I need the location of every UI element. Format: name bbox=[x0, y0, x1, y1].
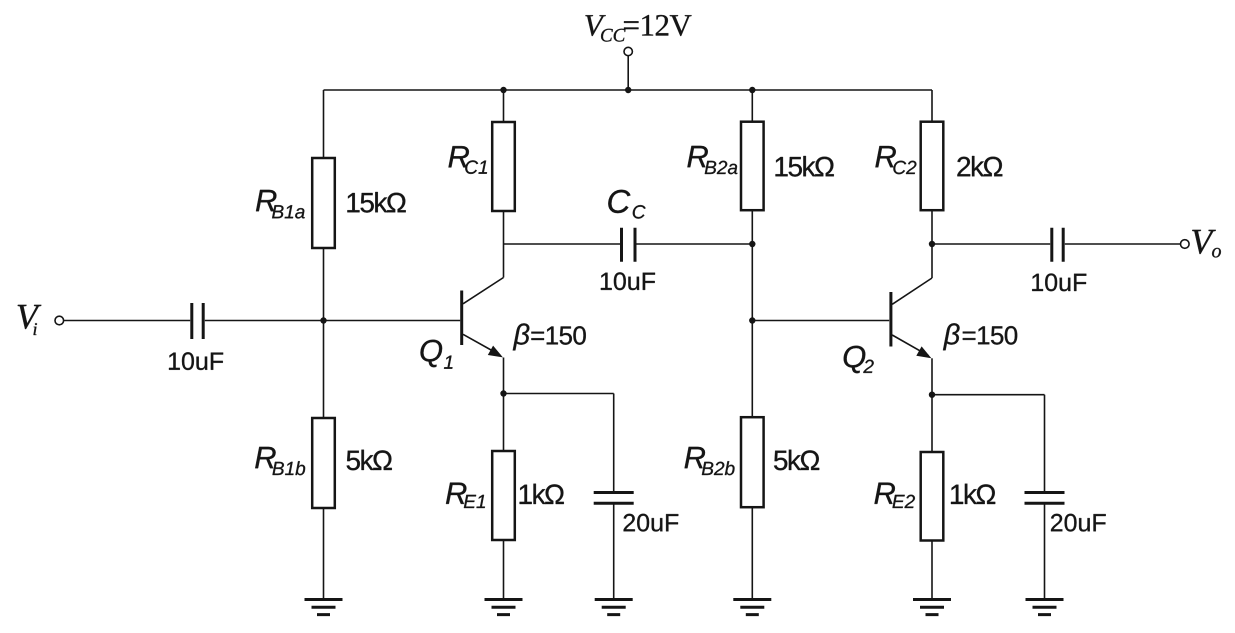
wire left column lower bbox=[323, 508, 325, 599]
label RE1 bbox=[446, 483, 485, 508]
junction dot node emitter 2 bbox=[929, 392, 935, 398]
capacitor Co plates bbox=[1052, 228, 1063, 262]
value 15k ohm 2 bbox=[776, 156, 834, 177]
resistor RB1a bbox=[312, 158, 335, 248]
terminal Vo bbox=[1181, 240, 1190, 249]
ground RB1b bbox=[305, 600, 343, 615]
value CE2 20uF bbox=[1051, 514, 1106, 532]
junction dot node base 2 bbox=[749, 317, 755, 323]
wire left column mid bbox=[323, 248, 325, 418]
wire RC2 bottom to collector 2 bbox=[931, 210, 933, 278]
label Q2 bbox=[844, 346, 874, 374]
value 5k ohm 1 bbox=[347, 450, 392, 471]
label RE2 bbox=[875, 483, 915, 508]
resistor RE2 bbox=[921, 452, 944, 541]
junction dot node emitter 1 bbox=[500, 390, 506, 396]
value 15k ohm 1 bbox=[347, 192, 405, 213]
label RC2 bbox=[875, 146, 916, 174]
wire bypass 2 horizontal bbox=[932, 394, 1045, 396]
transistor Q1 emitter arrowhead bbox=[488, 346, 503, 358]
capacitor CC plates bbox=[622, 228, 636, 262]
junction dot rail RC1 bbox=[500, 87, 506, 93]
wire VCC stem bbox=[627, 56, 629, 90]
wire mid column RB2a bottom through nodes bbox=[751, 210, 753, 417]
transistor Q2 emitter arrowhead bbox=[916, 346, 931, 358]
wire RE2 top bbox=[931, 395, 933, 452]
wire Q2 emitter vertical bbox=[931, 358, 933, 394]
resistor RB2b bbox=[741, 417, 764, 507]
transistor Q1 base bar bbox=[460, 291, 463, 346]
wire RC2 top bbox=[931, 90, 933, 122]
resistor RE1 bbox=[492, 451, 515, 540]
label RC1 bbox=[449, 146, 488, 174]
wire RC1 bottom to collector bbox=[503, 211, 505, 278]
value 1k ohm 2 bbox=[951, 484, 995, 504]
wire bypass 2 cap top bbox=[1044, 395, 1046, 491]
wire CC to RB2a column bbox=[637, 243, 753, 245]
resistor RB2a bbox=[741, 122, 764, 211]
capacitor Ci plates bbox=[192, 303, 203, 339]
wire input right bbox=[205, 320, 460, 322]
transistor Q1 emitter line bbox=[463, 334, 500, 355]
label CC bbox=[608, 190, 645, 219]
wire bypass 2 cap bottom bbox=[1044, 505, 1046, 600]
value 5k ohm 2 bbox=[774, 450, 819, 471]
ground RE1 bbox=[485, 600, 523, 615]
value 2k ohm bbox=[957, 156, 1002, 176]
label Vo bbox=[1192, 230, 1221, 258]
value CC 10uF bbox=[601, 272, 655, 290]
label Vi bbox=[18, 305, 42, 335]
wire top rail bbox=[324, 89, 933, 91]
ground RB2b bbox=[733, 600, 771, 615]
label RB2b bbox=[685, 447, 735, 475]
transistor Q2 collector line bbox=[892, 278, 932, 304]
transistor Q2 emitter line bbox=[892, 335, 928, 356]
terminal Vi bbox=[55, 316, 64, 325]
label beta 1 bbox=[513, 323, 586, 350]
wire RE1 top bbox=[503, 394, 505, 452]
value 1k ohm 1 bbox=[520, 484, 564, 504]
wire Q1 emitter vertical bbox=[503, 358, 505, 394]
ground CE2 bbox=[1026, 600, 1064, 615]
wire mid column top bbox=[751, 90, 753, 122]
wire output to Vo bbox=[1065, 243, 1181, 245]
transistor Q1 collector line bbox=[463, 278, 504, 304]
value CE1 20uF bbox=[624, 514, 679, 532]
junction dot node collector 2 bbox=[929, 241, 935, 247]
label VCC=12V bbox=[585, 15, 691, 42]
label RB2a bbox=[687, 146, 737, 174]
wire base 2 bbox=[752, 320, 889, 322]
resistor RB1b bbox=[312, 418, 335, 508]
junction dot node CC out bbox=[749, 241, 755, 247]
terminal VCC bbox=[624, 47, 632, 55]
junction dot rail RB2a bbox=[749, 87, 755, 93]
wire bypass 1 horizontal bbox=[504, 393, 614, 395]
value Co 10uF bbox=[1032, 274, 1086, 292]
label RB1b bbox=[255, 447, 305, 475]
ground CE1 bbox=[595, 600, 633, 615]
wire RE1 bottom bbox=[503, 540, 505, 599]
wire mid column lower bbox=[751, 507, 753, 599]
wire RC1 top bbox=[503, 90, 505, 122]
resistor RC1 bbox=[492, 122, 515, 211]
transistor Q2 base bar bbox=[889, 292, 892, 347]
wire bypass 1 cap bottom bbox=[613, 505, 615, 600]
wire left column upper bbox=[323, 90, 325, 158]
ground RE2 bbox=[913, 600, 951, 615]
wire output tap bbox=[932, 243, 1050, 245]
wire collector tap to CC bbox=[504, 243, 621, 245]
junction dot rail VCC bbox=[625, 87, 631, 93]
junction dot node base 1 bbox=[320, 317, 326, 323]
label beta 2 bbox=[943, 323, 1017, 350]
wire input left bbox=[64, 320, 190, 322]
wire bypass 1 cap top bbox=[613, 394, 615, 492]
capacitor CE1 plates bbox=[594, 493, 634, 504]
capacitor CE2 plates bbox=[1025, 493, 1065, 504]
label RB1a bbox=[256, 190, 305, 219]
resistor RC2 bbox=[921, 122, 944, 211]
wire RE2 bottom bbox=[931, 541, 933, 600]
value Ci 10uF bbox=[169, 352, 223, 370]
label Q1 bbox=[421, 340, 453, 369]
